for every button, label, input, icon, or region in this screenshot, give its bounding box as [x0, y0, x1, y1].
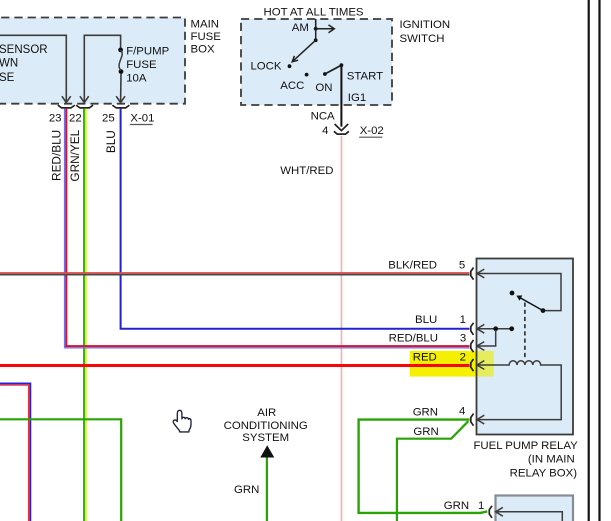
relay pin 5 cup [471, 268, 474, 280]
svg-text:GRN: GRN [413, 426, 438, 438]
svg-text:ON: ON [315, 82, 332, 94]
relay pin 1 cup [471, 323, 474, 335]
switch arm pivot dot [314, 38, 318, 42]
relay pin 2 cup [471, 359, 474, 371]
svg-text:BLU: BLU [415, 314, 437, 326]
relay pin 2 arrow [477, 361, 484, 370]
ignition switch label [400, 19, 451, 45]
relay coil and pin 2/4 internal path [477, 361, 561, 420]
bottom relay pin 1 cup [489, 506, 492, 518]
wiper ON to START [325, 65, 342, 74]
sensor box label (clipped at left edge) [0, 44, 48, 84]
svg-text:AM: AM [292, 22, 309, 34]
svg-text:BOX: BOX [191, 44, 215, 56]
ignition feed wire from box top to AM [315, 19, 317, 29]
bottom relay box [496, 496, 574, 521]
connector X-01 cup pin 22 [76, 105, 93, 108]
bottom relay pin 1 arrow [496, 507, 503, 516]
frame line inner [588, 0, 590, 521]
svg-text:HOT AT ALL TIMES: HOT AT ALL TIMES [264, 6, 364, 18]
relay switch fixed contact dot [510, 291, 515, 296]
relay pin 3 arrow [477, 342, 484, 351]
svg-text:ACC: ACC [280, 80, 304, 92]
svg-text:FUEL PUMP RELAY: FUEL PUMP RELAY [473, 440, 578, 452]
svg-text:X-01: X-01 [130, 112, 154, 124]
relay mechanical link (dashed) [524, 303, 526, 360]
svg-text:AIR: AIR [257, 407, 276, 419]
ACC terminal dot [305, 73, 309, 77]
START terminal dot [340, 63, 344, 67]
svg-text:3: 3 [460, 333, 466, 345]
svg-text:RED/BLU: RED/BLU [389, 333, 438, 345]
wire: fuse bottom to pin 25 [116, 74, 125, 103]
relay pin1/pin3 junction dot [493, 326, 498, 331]
main fuse box label [191, 18, 222, 55]
wire GRN to relay pin 4 then down to bottom relay [359, 420, 488, 513]
relay pin 4 arrow [477, 415, 484, 424]
wire RED to relay pin 2 [0, 364, 470, 367]
svg-text:WHT/RED: WHT/RED [280, 165, 333, 177]
wire GRN to air conditioning system [266, 457, 268, 521]
svg-text:4: 4 [459, 405, 465, 417]
svg-text:NCA: NCA [311, 111, 335, 123]
svg-text:RELAY BOX): RELAY BOX) [510, 467, 578, 479]
connector X-02 cup [334, 131, 349, 134]
svg-text:GRN/YEL: GRN/YEL [68, 129, 82, 181]
fuse label [126, 45, 169, 84]
svg-text:GRN: GRN [234, 484, 259, 496]
wire: fuse box output to pin 23 [0, 35, 71, 102]
relay pin 1 arrow [477, 324, 484, 333]
relay pin 5 arrow [477, 269, 484, 278]
fuse F/PUMP FUSE 10A [118, 48, 123, 75]
air conditioning arrow [260, 445, 274, 457]
relay pin 5 internal path [477, 274, 561, 311]
svg-text:WN: WN [0, 57, 18, 69]
relay pin 3 cup [471, 340, 474, 352]
svg-text:F/PUMP: F/PUMP [126, 45, 169, 57]
AM arrow right [316, 25, 335, 33]
connector X-01 cup pin 25 [112, 105, 129, 108]
wire BLU vertical then to relay pin 1 [121, 109, 470, 329]
svg-text:GRN: GRN [413, 407, 438, 419]
main fuse box [0, 18, 185, 104]
svg-text:LOCK: LOCK [250, 60, 281, 72]
svg-text:IG1: IG1 [348, 92, 366, 104]
svg-text:10A: 10A [126, 72, 147, 84]
yellow highlight on RED wire row [410, 351, 494, 377]
switch arm stem [315, 29, 317, 40]
relay pin 4 cup [471, 414, 474, 426]
svg-text:RED: RED [413, 352, 437, 364]
svg-text:FUSE: FUSE [191, 31, 222, 43]
connector X-01 cup pin 23 [58, 105, 75, 108]
ON terminal dot [323, 72, 327, 76]
wire GRN branch from pin 4 down [397, 421, 468, 521]
wire BLK/RED to relay pin 5 (black) [0, 274, 470, 276]
wire: fuse box bus to pin 22 and fuse top [80, 35, 121, 102]
wire BLU/RED corner at bottom left (blue) [0, 383, 30, 521]
wire RED/BLU vertical (blue stripe) [64, 109, 66, 349]
bottom relay internal path [496, 512, 563, 521]
wire GRN/YEL vertical (yellow stripe) [85, 109, 87, 521]
svg-text:22: 22 [69, 112, 82, 124]
connector label X-01 [130, 112, 155, 124]
svg-text:GRN: GRN [444, 500, 469, 512]
relay switch arm with arrow [516, 295, 543, 310]
relay switch moving contact dot [541, 308, 546, 313]
relay pin 1 internal line [477, 328, 512, 330]
svg-text:MAIN: MAIN [191, 18, 219, 30]
wire RED/BLU vertical (red) [65, 109, 67, 348]
svg-text:1: 1 [460, 314, 466, 326]
svg-text:25: 25 [102, 112, 115, 124]
relay normally-closed contact dot [509, 326, 514, 331]
svg-text:BLU: BLU [104, 130, 118, 153]
AM terminal dot [314, 27, 318, 31]
svg-text:SE: SE [0, 72, 15, 84]
wire GRN left corner [0, 419, 121, 521]
svg-text:CONDITIONING: CONDITIONING [224, 420, 308, 432]
IG1 output wire [340, 65, 342, 126]
wire WHT/RED vertical [340, 136, 342, 521]
svg-text:SYSTEM: SYSTEM [242, 432, 289, 444]
svg-text:SENSOR: SENSOR [0, 44, 48, 56]
svg-text:4: 4 [322, 125, 328, 137]
svg-text:1: 1 [478, 500, 484, 512]
svg-text:FUSE: FUSE [126, 59, 157, 71]
svg-text:BLK/RED: BLK/RED [388, 259, 437, 271]
wire BLU/RED corner at bottom left (red stripe) [0, 385, 29, 521]
wire BLK/RED to relay pin 5 (red stripe) [0, 272, 470, 274]
connector label X-02 [359, 125, 384, 137]
svg-text:23: 23 [49, 112, 62, 124]
mouse cursor [173, 410, 191, 432]
fuel pump relay label [473, 440, 578, 480]
svg-text:2: 2 [460, 352, 466, 364]
ignition switch box [241, 19, 392, 105]
wire RED/BLU horizontal (blue stripe) [65, 347, 470, 349]
wire GRN/YEL vertical (green) [83, 109, 85, 521]
frame line outer [598, 0, 600, 521]
svg-text:START: START [347, 70, 383, 82]
svg-text:5: 5 [459, 260, 465, 272]
connector X-02 arrow [335, 124, 349, 131]
svg-text:SWITCH: SWITCH [400, 33, 445, 45]
relay pin 3 internal line [477, 330, 496, 346]
air conditioning label [224, 407, 308, 444]
svg-text:IGNITION: IGNITION [400, 19, 451, 31]
svg-text:(IN MAIN: (IN MAIN [528, 453, 575, 465]
wire RED/BLU horizontal to relay pin 3 (red) [65, 345, 469, 347]
switch arm to LOCK (arrow) [292, 40, 316, 62]
fuel pump relay box [477, 259, 574, 435]
svg-text:X-02: X-02 [360, 125, 384, 137]
LOCK terminal dot [288, 64, 292, 68]
svg-text:RED/BLU: RED/BLU [50, 130, 64, 181]
